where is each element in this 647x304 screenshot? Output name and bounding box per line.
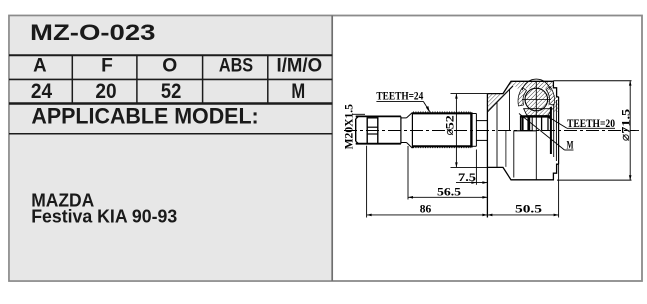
dim phi52 extension bottom [451,166,488,168]
svg-text:71.5: 71.5 [621,108,633,133]
cage wedge top-right [546,87,555,106]
dim 7.5 arrows [471,181,487,184]
svg-text:ABS: ABS [219,54,253,76]
svg-text:56.5: 56.5 [437,187,461,199]
svg-text:F: F [101,54,113,76]
svg-text:24: 24 [31,79,52,103]
chamfer to barrel top [407,113,413,118]
spline thick vertical 2 [527,117,530,131]
groove top [401,117,407,119]
svg-text:I/M/O: I/M/O [277,54,323,76]
TEETH=24 underline [376,100,423,102]
svg-text:M: M [291,79,305,103]
dim 86 extension left [366,146,368,218]
dim phi52 arrows [455,94,458,168]
housing outer bottom profile [487,164,558,180]
hatch left wedge top [487,81,514,110]
race hatch top [524,109,552,116]
thread tip chamfer bottom [356,141,359,144]
dim phi71.5 arrows [629,81,632,181]
thread tip chamfer top [356,116,359,119]
thread tip vertical [355,119,357,141]
svg-text:A: A [33,54,47,76]
svg-text:M: M [567,138,574,152]
TEETH=24 leader [423,101,429,111]
spline thin vertical 3 [531,117,533,131]
column divider 4 [267,55,269,103]
svg-text:TEETH=24: TEETH=24 [376,91,423,103]
svg-text:50.5: 50.5 [515,204,542,216]
table line below value row [9,102,332,105]
column divider 2 [136,55,138,103]
ring right vertical [475,114,477,147]
neck top [476,120,487,122]
ball top horizontal center mark [522,99,551,101]
barrel bottom serration [413,147,471,149]
barrel bottom edge (spline teeth) [412,145,471,147]
ring after barrel bottom [471,145,476,147]
svg-text:TEETH=20: TEETH=20 [567,118,615,130]
svg-text:20: 20 [95,79,116,103]
inner cavity diagonal top [487,86,513,112]
TEETH=20 underline [567,127,615,129]
dim 56.5 extension left [407,146,409,200]
hatch under top flat [511,81,553,88]
dim 86/50.5 arrows [367,214,559,217]
dim 56.5 arrows [408,196,487,199]
cavity bottom edge at centerline [514,130,537,132]
table right border [331,16,333,282]
barrel top edge (spline teeth) [412,112,471,114]
housing face line (with extension to dim) [486,94,488,218]
OD edge vertical (view) [513,131,515,178]
spline thin vertical 4 [541,117,543,131]
spline left boundary [520,116,522,131]
rim face right [558,97,560,164]
groove bottom [401,142,407,144]
M20X1.5 tick line [352,113,365,115]
dim line 56.5 [408,196,487,198]
mouth inner vertical 2 [553,104,555,157]
M underline [565,149,574,151]
mouth inner vertical 3 [555,100,557,161]
chamfer to barrel bottom [407,143,413,149]
housing outer top profile [487,81,558,97]
ring after barrel top [471,113,476,115]
interior vertical ball center line [535,81,537,180]
cage arc over top ball [522,79,550,90]
shaft top edge [356,115,401,117]
svg-text:MZ-O-023: MZ-O-023 [30,20,156,45]
dim phi52 extension top [451,93,488,95]
barrel left edge [411,113,413,149]
centerline [344,130,639,132]
dim 7.5 extension left [475,150,477,185]
M leader [519,114,565,151]
neck bottom [476,139,487,141]
svg-text:O: O [162,54,177,76]
dim phi71.5 extension top [553,80,631,82]
cage wedge top-left [518,88,527,107]
spline top bar [521,115,551,117]
phi symbol for 71.5 [623,135,629,141]
phi symbol for 52 [447,129,453,135]
TEETH=24 leader arrowhead [426,106,430,113]
table line below header row [9,78,332,80]
dim line 86 and 50.5 [367,214,559,216]
table line below title [9,54,332,56]
svg-text:APPLICABLE MODEL:: APPLICABLE MODEL: [31,104,258,129]
collar box [367,118,378,144]
dim ext right face [558,164,560,217]
table line below APPLICABLE MODEL [9,133,332,135]
hatch right wall top [547,92,559,112]
collar mid line 1 [367,126,378,128]
svg-text:86: 86 [420,204,432,216]
collar mid line 2 [367,133,378,135]
svg-text:M20X1.5: M20X1.5 [343,104,355,150]
dim phi71.5 vertical line [629,81,631,181]
table panel background [10,16,332,280]
svg-text:7.5: 7.5 [458,172,476,184]
dim phi71.5 extension bottom [557,179,632,181]
TEETH=20 leader [546,116,567,129]
TEETH=20 leader arrowhead [545,115,551,119]
svg-text:52: 52 [161,79,181,103]
mouth inner vertical 1 [550,107,552,154]
spline thick vertical 1 [521,117,523,131]
barrel top serration [413,111,471,113]
groove edge vertical (view) [505,131,507,167]
dim line 7.5 [456,182,487,184]
svg-text:52: 52 [445,115,457,129]
interior vertical cavity line 1 [496,102,498,167]
spline thin vertical 5 [547,117,549,131]
column divider 3 [202,55,204,103]
shaft bottom edge [356,143,401,145]
shank step vertical [400,116,402,143]
column divider 1 [71,55,73,103]
barrel right edge [470,112,472,147]
interior vertical cavity line 2 [509,89,511,131]
dim phi52 vertical line [455,94,457,168]
svg-text:Festiva KIA 90-93: Festiva KIA 90-93 [31,206,177,227]
ball top [525,88,548,111]
